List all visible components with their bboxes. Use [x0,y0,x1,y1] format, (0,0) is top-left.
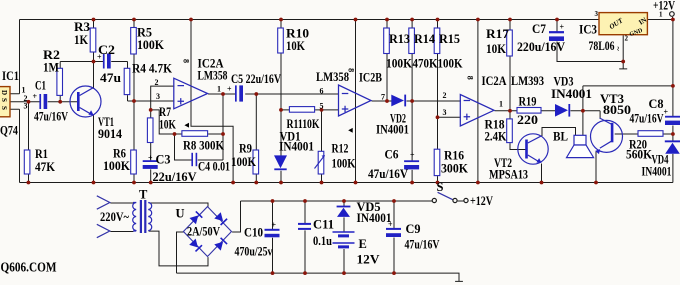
svg-text:2: 2 [443,91,447,100]
svg-text:10K: 10K [486,42,506,56]
svg-text:C5 22u/16V: C5 22u/16V [231,72,281,86]
svg-text:R12: R12 [332,142,349,156]
svg-text:47K: 47K [35,160,55,174]
svg-text:R13: R13 [389,32,410,46]
svg-text:D: D [0,90,8,95]
svg-text:10K: 10K [159,118,176,132]
svg-text:T: T [139,188,148,202]
svg-text:78L06: 78L06 [589,39,615,53]
svg-text:100K: 100K [103,159,130,173]
svg-text:LM358: LM358 [198,69,228,83]
svg-text:R16: R16 [444,149,464,163]
svg-text:IC2A: IC2A [482,74,507,88]
svg-text:10K: 10K [286,39,305,53]
svg-text:1: 1 [659,11,663,19]
svg-text:560K: 560K [626,148,652,162]
svg-text:+: + [148,154,153,163]
svg-text:S: S [437,180,444,194]
svg-text:C1: C1 [35,79,46,93]
svg-text:300K: 300K [441,162,468,176]
svg-text:IN4001: IN4001 [642,165,672,179]
svg-text:E: E [359,237,367,251]
svg-text:220: 220 [517,113,538,127]
svg-text:IC3: IC3 [579,23,597,37]
svg-text:BL: BL [553,130,568,144]
svg-text:3: 3 [156,92,160,101]
svg-text:+: + [388,220,393,229]
svg-text:100K: 100K [231,155,256,169]
svg-text:100K: 100K [137,38,164,52]
svg-text:6: 6 [320,87,324,96]
svg-text:U: U [176,207,185,221]
svg-text:S: S [0,98,8,102]
svg-text:S: S [0,106,8,110]
svg-text:2: 2 [625,35,629,43]
svg-text:R4 4.7K: R4 4.7K [132,62,172,76]
svg-text:R9: R9 [239,142,252,156]
svg-text:12V: 12V [357,253,380,267]
svg-text:1M: 1M [43,61,59,75]
svg-text:8: 8 [465,76,474,80]
svg-text:LM393: LM393 [511,74,544,88]
svg-text:IN4001: IN4001 [357,211,392,225]
svg-text:1: 1 [217,85,221,94]
svg-text:IN4001: IN4001 [376,123,409,137]
svg-text:C3: C3 [156,153,171,167]
svg-text:C11: C11 [313,218,334,232]
svg-text:IN4001: IN4001 [279,140,314,154]
svg-text:+: + [560,23,565,32]
svg-text:IC1: IC1 [2,69,19,83]
svg-text:+: + [227,85,232,94]
svg-text:8: 8 [347,68,356,72]
svg-text:100K: 100K [438,57,463,71]
svg-text:C4 0.01: C4 0.01 [198,160,230,174]
svg-text:2A/50V: 2A/50V [187,225,220,239]
svg-text:0.1u: 0.1u [313,234,332,248]
svg-text:IN4001: IN4001 [551,87,592,101]
svg-text:Q74: Q74 [0,124,19,138]
svg-text:+: + [272,221,277,230]
svg-text:9014: 9014 [98,127,123,141]
svg-text:3: 3 [24,101,28,110]
svg-text:8050: 8050 [603,103,631,117]
svg-text:8: 8 [181,59,190,63]
svg-text:470u/25v: 470u/25v [235,245,274,259]
svg-text:C8: C8 [649,97,664,111]
svg-text:R19: R19 [519,95,537,109]
svg-text:C6: C6 [385,148,399,162]
svg-text:+: + [97,53,102,62]
svg-text:2: 2 [155,78,159,87]
svg-text:47u/16V: 47u/16V [34,110,68,124]
svg-text:C10: C10 [244,226,263,240]
svg-text:1K: 1K [74,33,88,47]
svg-text:MPSA13: MPSA13 [489,168,528,182]
svg-text:R17: R17 [486,27,509,41]
svg-text:3: 3 [443,108,447,117]
svg-text:+12V: +12V [470,194,493,208]
svg-text:R14: R14 [414,32,436,46]
svg-text:100K: 100K [332,157,356,171]
svg-text:+: + [33,92,38,101]
svg-text:47u: 47u [100,71,121,85]
svg-text:220u/16V: 220u/16V [517,40,565,54]
svg-text:22u/16V: 22u/16V [153,170,197,184]
svg-text:1: 1 [499,100,503,109]
svg-text:R1: R1 [35,147,48,161]
svg-text:2.4K: 2.4K [485,130,507,144]
svg-text:R3: R3 [74,20,90,34]
svg-text:+12V: +12V [653,0,675,13]
svg-text:R8 300K: R8 300K [183,139,224,153]
svg-text:LM358: LM358 [316,70,349,84]
svg-text:3: 3 [595,10,599,18]
svg-text:C7: C7 [532,22,546,36]
svg-text:+: + [664,108,669,117]
svg-text:+: + [410,151,415,160]
svg-text:220V~: 220V~ [100,210,129,224]
svg-text:Q606.COM: Q606.COM [1,260,57,275]
svg-text:5: 5 [320,102,324,111]
svg-text:100K: 100K [386,57,412,71]
svg-text:7: 7 [381,93,385,102]
svg-text:C9: C9 [406,222,421,236]
svg-text:470K: 470K [413,57,438,71]
svg-text:R15: R15 [439,32,460,46]
svg-text:47u/16V: 47u/16V [630,112,664,126]
svg-text:47u/16V: 47u/16V [405,238,440,252]
svg-text:IC2B: IC2B [359,71,382,85]
svg-text:47u/16V: 47u/16V [368,167,408,181]
